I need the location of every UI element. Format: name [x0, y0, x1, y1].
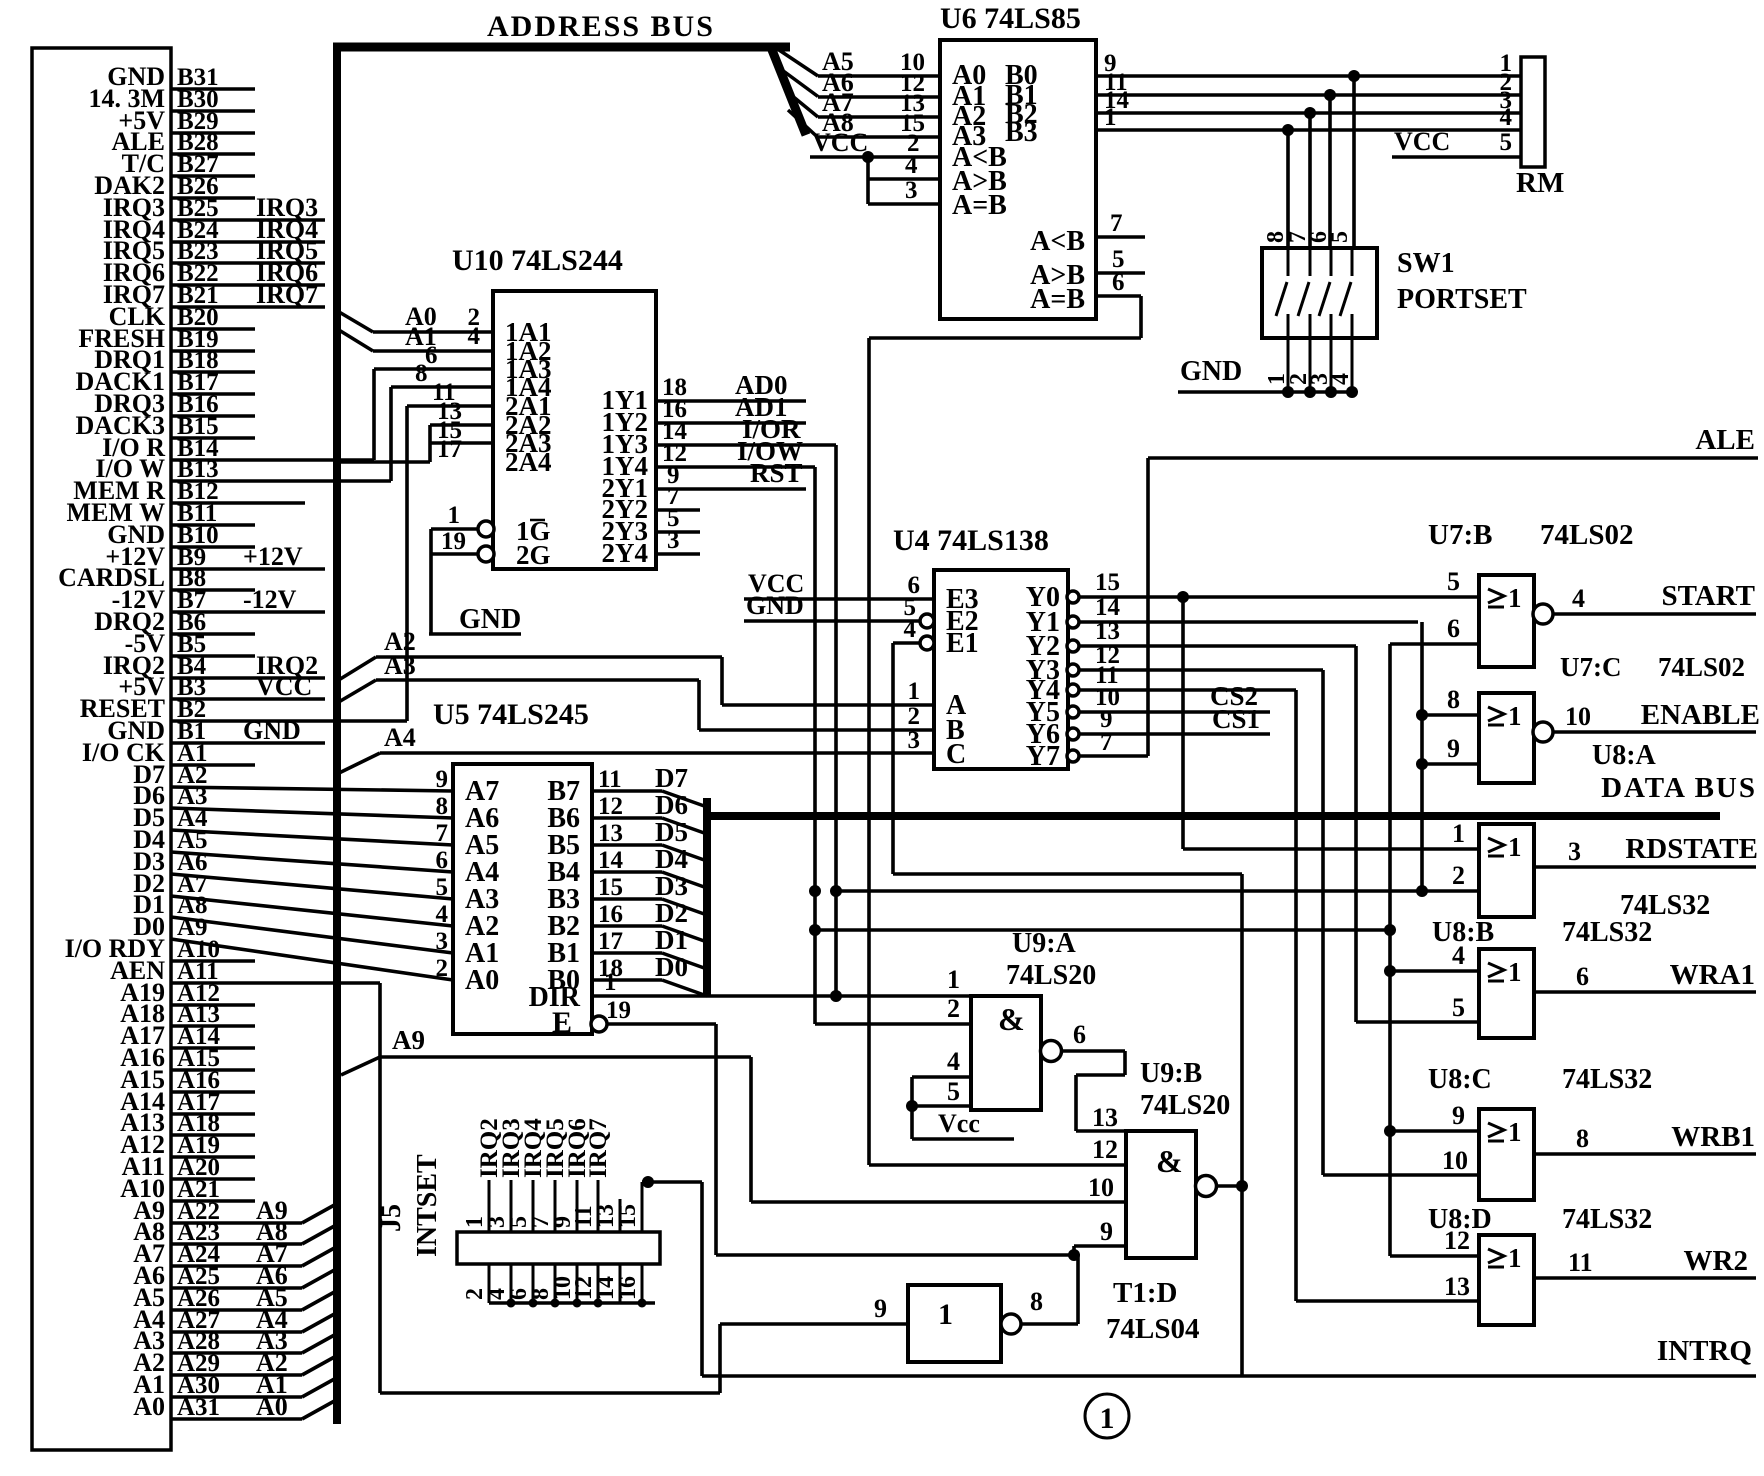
svg-text:A=B: A=B: [1030, 284, 1085, 315]
pin A18 A13: [120, 1108, 255, 1137]
svg-text:ENABLE: ENABLE: [1641, 699, 1760, 731]
svg-text:RST: RST: [750, 458, 803, 488]
svg-text:2Y4: 2Y4: [602, 538, 649, 568]
junction riser / U8:C pin 9: [1384, 1125, 1396, 1137]
junction SW1/GND: [1304, 386, 1316, 398]
svg-text:1: 1: [1508, 957, 1522, 987]
pin B9 +12V: [105, 542, 325, 571]
wire Y7 to ALE: [1079, 458, 1148, 756]
pin B28 ALE: [112, 127, 255, 156]
svg-text:6: 6: [1112, 269, 1125, 296]
svg-text:7: 7: [1110, 210, 1123, 237]
wire A0 from address bus to U10 pin 2: [334, 302, 493, 332]
svg-text:DATA BUS: DATA BUS: [1601, 772, 1757, 804]
wire B1 down to SW1: [1328, 95, 1332, 248]
U4 Y6 bubble pin 9: [1067, 728, 1079, 740]
wire U10 enables 1G 2G to GND: [431, 502, 479, 634]
wire Y4 to U8:D pin 13: [1079, 662, 1479, 1301]
svg-text:17: 17: [598, 928, 623, 955]
junction J5 pin15: [642, 1176, 654, 1188]
wire RESET (B2) to U10 pin 11: [407, 379, 493, 721]
svg-text:PORTSET: PORTSET: [1397, 284, 1527, 315]
inverter T1:D 74LS04: [908, 1277, 1199, 1362]
svg-text:WR2: WR2: [1684, 1245, 1748, 1277]
pin A17 A14: [120, 1087, 255, 1116]
pin B20 CLK: [109, 302, 255, 331]
pin A25 A6: [133, 1261, 338, 1290]
svg-text:9: 9: [1100, 1217, 1113, 1246]
wire U8:B pin 4: [1390, 941, 1479, 971]
wire VCC to U4 E3 pin 6: [744, 569, 934, 599]
svg-text:11: 11: [598, 766, 622, 793]
pin A23 A8: [133, 1217, 338, 1246]
svg-text:2: 2: [436, 955, 449, 982]
wire U7:C pin 9 from Y1 net: [1422, 734, 1479, 764]
J5 top pin 3: [484, 1118, 525, 1232]
svg-text:Vcc: Vcc: [938, 1109, 980, 1138]
pin A4 D5: [133, 803, 453, 845]
svg-text:4: 4: [1572, 584, 1585, 613]
ground GND for SW1: [1178, 356, 1354, 392]
svg-text:INTSET: INTSET: [412, 1154, 443, 1257]
svg-text:8: 8: [415, 360, 428, 387]
pin B13 I/O W: [95, 454, 391, 483]
pin B3 +5V: [118, 672, 325, 701]
connector P1 (ISA bus edge connector) body: [32, 48, 171, 1450]
junction J5 rail: [529, 1299, 538, 1308]
decoder U4 74LS138: [893, 524, 1068, 772]
wire U7:C pin 8 from Y1 net: [1422, 685, 1479, 715]
svg-text:13: 13: [1444, 1272, 1470, 1301]
svg-text:D7: D7: [655, 763, 688, 793]
svg-text:13: 13: [1092, 1103, 1118, 1132]
pin A19 A12: [120, 1130, 255, 1159]
pin A20 A11: [122, 1152, 255, 1181]
wire I/OW tie to U8 gate column: [815, 928, 1390, 932]
resistor network RM: [1516, 57, 1564, 199]
wire to U10 pins 13 15 17: [333, 398, 493, 463]
junction B3 / SW1: [1282, 124, 1294, 136]
svg-text:A<B: A<B: [1030, 226, 1085, 257]
svg-text:1: 1: [1452, 819, 1465, 848]
svg-text:16: 16: [615, 1276, 641, 1300]
wire RST from U10 pin 9: [656, 458, 806, 489]
J5 bottom pin 2: [462, 1264, 489, 1303]
J5 bottom pin 6: [506, 1264, 533, 1303]
pin B1 GND: [107, 716, 325, 745]
svg-text:15: 15: [615, 1204, 641, 1228]
svg-text:U7:C: U7:C: [1560, 652, 1622, 682]
wire B3 down to SW1: [1286, 130, 1290, 248]
OR gate U8:C 74LS32: [1428, 1064, 1652, 1200]
wire A5 to U6 pin 10: [818, 47, 940, 76]
svg-text:1: 1: [1104, 104, 1117, 131]
wire Y3 to U8:C pin 10: [1079, 642, 1479, 1175]
svg-text:74LS32: 74LS32: [1562, 1064, 1652, 1095]
svg-text:1: 1: [1508, 832, 1522, 862]
wire WR2 output pin 11: [1534, 1245, 1756, 1278]
NAND gate U9:A 74LS20: [971, 928, 1096, 1110]
wire U5 B3 pin 15 to data bus (D3): [592, 871, 707, 915]
J5 bottom pin 10: [550, 1264, 577, 1303]
svg-text:3: 3: [436, 928, 449, 955]
svg-text:A31: A31: [177, 1394, 220, 1421]
junction pin4/pin5 tie: [906, 1100, 918, 1112]
pin B10 GND: [107, 520, 255, 549]
svg-text:GND: GND: [1180, 356, 1242, 387]
svg-text:17: 17: [437, 436, 462, 463]
svg-text:1: 1: [604, 969, 617, 996]
junction J5 rail: [507, 1299, 516, 1308]
J5 top pin 9: [550, 1118, 591, 1232]
J5 bottom pin 14: [593, 1264, 620, 1303]
svg-text:4: 4: [904, 616, 917, 643]
pin B25 IRQ3: [103, 193, 325, 222]
pin B23 IRQ5: [103, 236, 325, 265]
wire A6 to U6 pin 12: [818, 68, 940, 97]
svg-text:4: 4: [1500, 104, 1513, 131]
U10 enable bubbles: [478, 521, 494, 537]
junction T1 out / E net: [1068, 1249, 1080, 1261]
pin B2 RESET: [80, 694, 407, 723]
pin B22 IRQ6: [103, 258, 325, 287]
U7:B output bubble: [1533, 604, 1553, 624]
SW1 bottom pins to GND: [1264, 338, 1354, 392]
svg-text:6: 6: [1447, 614, 1460, 643]
sheet number 1: [1085, 1394, 1129, 1438]
wire U8:C pin 9: [1390, 1101, 1479, 1131]
wire U6 B3 pin 1 to RM pin 4: [1096, 104, 1521, 131]
svg-text:1: 1: [908, 678, 921, 705]
U9:A output bubble pin 6: [1041, 1041, 1062, 1062]
wire AEN down and right to T1 pin 9: [380, 983, 720, 1393]
junction B2 / SW1: [1304, 107, 1316, 119]
svg-text:B3: B3: [1005, 117, 1038, 148]
wire U8:D pin 12: [1390, 1226, 1479, 1256]
svg-text:5: 5: [947, 1077, 960, 1106]
svg-text:13: 13: [598, 820, 623, 847]
J5 bottom common rail: [489, 1301, 655, 1305]
pin B21 IRQ7: [103, 280, 325, 309]
stub U10 pin 7: [656, 483, 700, 510]
svg-text:U7:B: U7:B: [1428, 519, 1492, 551]
J5 bottom pin 12: [571, 1264, 598, 1303]
wire T1 input pin 9 from AEN: [720, 1294, 908, 1324]
wire WRA1 output pin 6: [1534, 959, 1756, 992]
wire U8:A pin 2 from I/OR: [836, 889, 1479, 893]
wire U6 B0 pin 9 to RM pin 1: [1096, 50, 1521, 77]
stub U10 pin 3: [656, 527, 700, 554]
power Vcc for U9:A: [912, 1109, 1014, 1139]
svg-text:74LS32: 74LS32: [1562, 917, 1652, 948]
wire U5 B0 pin 18 to data bus (D0): [592, 952, 707, 996]
wire U6 B1 pin 11 to RM pin 2: [1096, 69, 1521, 96]
junction J5 rail: [594, 1299, 603, 1308]
svg-text:74LS02: 74LS02: [1540, 519, 1633, 551]
junction B1 / SW1: [1324, 89, 1336, 101]
U6 output stub A<B pin 7: [1096, 210, 1145, 237]
pin A31 A0: [133, 1392, 338, 1421]
J5 top pin 5: [506, 1118, 547, 1232]
comparator U6 74LS85: [940, 2, 1096, 319]
pin A7 D2: [133, 869, 453, 926]
J5 top pin 7: [528, 1118, 569, 1232]
pin A27 A4: [133, 1305, 338, 1334]
pin A9 D0: [133, 912, 453, 980]
T1 output bubble pin 8: [1001, 1314, 1021, 1334]
svg-text:GND: GND: [459, 604, 521, 635]
svg-text:1: 1: [1508, 583, 1522, 613]
wire U5 B2 pin 16 to data bus (D2): [592, 898, 707, 942]
pin B27 T/C: [122, 149, 255, 178]
svg-text:T1:D: T1:D: [1113, 1277, 1177, 1309]
pin B14 I/O R: [102, 433, 374, 462]
svg-text:U4 74LS138: U4 74LS138: [893, 524, 1049, 557]
pin B19 FRESH: [78, 324, 255, 353]
wire U9:A pin 6 to U9:B pin 13: [1061, 1020, 1126, 1131]
wire B0 down to SW1: [1352, 76, 1356, 248]
svg-text:6: 6: [1073, 1020, 1086, 1049]
wire U5 DIR pin 1 from I/OR to U9:A pin 1: [592, 969, 971, 996]
svg-text:14: 14: [1095, 594, 1121, 621]
pin B31 GND: [107, 62, 255, 91]
svg-text:10: 10: [1442, 1146, 1468, 1175]
junction B0 / SW1: [1348, 70, 1360, 82]
pin A2 D7: [133, 760, 453, 791]
svg-text:IRQ7: IRQ7: [256, 280, 318, 309]
svg-text:E: E: [552, 1006, 572, 1039]
J5 bottom pin 8: [528, 1264, 555, 1303]
svg-text:U8:C: U8:C: [1428, 1064, 1492, 1095]
junction Y0 / U8:A pin 1 riser: [1177, 591, 1189, 603]
svg-text:A3: A3: [384, 651, 416, 680]
svg-text:SW1: SW1: [1397, 248, 1455, 279]
pin A11 AEN: [110, 956, 380, 985]
U4 Y2 bubble pin 13: [1067, 640, 1079, 652]
svg-text:A9: A9: [392, 1025, 425, 1055]
svg-text:D4: D4: [655, 844, 688, 874]
address bus horizontal (thick): [333, 43, 790, 52]
U5 E bubble pin 19: [591, 1016, 607, 1032]
svg-text:2G: 2G: [516, 540, 551, 570]
svg-text:12: 12: [598, 793, 623, 820]
NOR gate U7:C 74LS02: [1479, 652, 1745, 783]
wire A1 from address bus to U10 pin 4: [334, 322, 493, 351]
svg-text:IRQ7: IRQ7: [585, 1118, 612, 1178]
wire A8 to U6 pin 15: [818, 108, 940, 137]
svg-text:16: 16: [598, 901, 623, 928]
junction J5 rail: [551, 1299, 560, 1308]
svg-text:3: 3: [908, 727, 921, 754]
data bus horizontal (thick): [707, 812, 1720, 820]
U9:B pin labels: [1088, 1103, 1118, 1246]
wire U9:B output to U4 E1 pin 4: [893, 616, 1242, 874]
svg-text:VCC: VCC: [256, 672, 312, 701]
pin A28 A3: [133, 1326, 338, 1355]
junction riser / U8:B pin 4: [1384, 965, 1396, 977]
wire VCC tie to U6 pins 4 and 3: [868, 152, 940, 204]
pin B4 IRQ2: [103, 651, 325, 680]
svg-text:ALE: ALE: [1695, 424, 1755, 456]
pin A5 D4: [133, 825, 453, 872]
wire U5 B5 pin 13 to data bus (D5): [592, 817, 707, 861]
svg-text:5: 5: [1452, 993, 1465, 1022]
address bus vertical (thick): [333, 43, 341, 1424]
stub U10 pin 5: [656, 505, 700, 532]
J5 top pin 1: [462, 1118, 503, 1232]
pin B26 DAK2: [94, 171, 255, 200]
address bus fan-out diagonals to U6 A5-A8: [770, 45, 818, 138]
wire A=B pin 6 from U6 to U4 E1 and U9:B pin 12: [869, 269, 1141, 1165]
svg-text:GND: GND: [243, 716, 301, 745]
wire A4 to U4 C pin 3: [337, 723, 934, 774]
wire GND to U4 E2 pin 5: [744, 591, 920, 621]
svg-text:Y7: Y7: [1026, 741, 1060, 772]
svg-text:74LS20: 74LS20: [1140, 1090, 1230, 1121]
junction U9:B output: [1236, 1180, 1248, 1192]
J5 top pin 13: [593, 1199, 620, 1232]
svg-text:2: 2: [947, 994, 960, 1023]
U4 Y0 bubble pin 15: [1067, 591, 1079, 603]
svg-text:4: 4: [905, 152, 918, 179]
junction J5 rail: [638, 1299, 647, 1308]
wire Y6 CS1: [1079, 704, 1270, 734]
DIP switch SW1 PORTSET: [1262, 231, 1527, 338]
svg-text:2: 2: [908, 703, 921, 730]
svg-text:A0: A0: [133, 1392, 165, 1421]
pin A16 A15: [120, 1065, 255, 1094]
junction SW1/GND: [1282, 386, 1294, 398]
U4 Y3 bubble pin 12: [1067, 664, 1079, 676]
junction SW1/GND: [1325, 386, 1337, 398]
svg-text:2: 2: [1452, 861, 1465, 890]
U7:B pin labels: [1447, 567, 1460, 643]
svg-text:1: 1: [938, 1298, 953, 1331]
junction Y1 / U8:A pin 2: [1416, 885, 1428, 897]
wire Y5 CS2: [1079, 681, 1270, 712]
svg-text:&: &: [998, 1001, 1025, 1037]
junction I/OW / WR tie line: [809, 924, 821, 936]
wire B2 down to SW1: [1308, 113, 1312, 248]
wire U5 B7 pin 11 to data bus (D7): [592, 763, 707, 807]
svg-text:9: 9: [1447, 734, 1460, 763]
pin B16 DRQ3: [94, 389, 255, 418]
svg-text:D2: D2: [655, 898, 688, 928]
junction Y1 / U7:C pin 8: [1416, 709, 1428, 721]
svg-text:1: 1: [1508, 701, 1522, 731]
svg-text:4: 4: [1452, 941, 1465, 970]
junction tie / U7:B pin 6 riser: [1384, 924, 1396, 936]
pin A3 D6: [133, 781, 453, 818]
wire A7 to U6 pin 13: [818, 88, 940, 117]
svg-text:74LS02: 74LS02: [1658, 652, 1745, 682]
svg-text:RDSTATE: RDSTATE: [1625, 833, 1758, 865]
svg-text:12: 12: [1092, 1135, 1118, 1164]
wire U5 E pin 19 to U9:B pin 9 / T1 output: [606, 997, 1078, 1255]
junction I/OR / U8:A pin 2 wire: [830, 885, 842, 897]
pin B17 DACK1: [75, 367, 255, 396]
svg-text:74LS04: 74LS04: [1106, 1313, 1199, 1345]
wire AD1 from U10 pin 16: [656, 392, 806, 423]
pin A13 A18: [120, 999, 255, 1028]
svg-text:U9:A: U9:A: [1012, 928, 1077, 959]
wire T1 output pin 8 to U9:B pin 9: [1021, 1246, 1126, 1324]
svg-text:U10 74LS244: U10 74LS244: [452, 244, 623, 277]
pin A1 I/O CK: [82, 738, 255, 767]
U4 Y7 bubble pin 7: [1067, 750, 1079, 762]
svg-text:4: 4: [1328, 373, 1354, 385]
svg-text:A4: A4: [384, 723, 416, 752]
NAND gate U9:B 74LS20: [1126, 1058, 1230, 1258]
wire I/O R (B14) to U10 pin 6: [374, 342, 493, 460]
wire I/OW from U10 pin 12 down to U9:A pin 2: [656, 436, 971, 1024]
svg-text:3: 3: [667, 527, 680, 554]
U7:C output bubble: [1533, 722, 1553, 742]
wire WRB1 output pin 8: [1534, 1121, 1756, 1154]
wire U6 B2 pin 14 to RM pin 3: [1096, 87, 1521, 114]
pin B12 MEM R: [73, 476, 305, 505]
wire U7:B pin 6 net riser to U8 gates: [1390, 644, 1479, 1256]
svg-text:8: 8: [436, 793, 449, 820]
svg-text:4: 4: [436, 901, 449, 928]
svg-text:VCC: VCC: [1394, 127, 1450, 156]
wire U5 B4 pin 14 to data bus (D4): [592, 844, 707, 888]
svg-text:5: 5: [1327, 231, 1353, 243]
svg-text:7: 7: [436, 820, 449, 847]
svg-text:3: 3: [905, 177, 918, 204]
pin B24 IRQ4: [103, 215, 325, 244]
svg-text:8: 8: [1030, 1287, 1043, 1316]
wire U9:B output to INTRQ and U4 E1: [1216, 874, 1242, 1376]
buffer U10 74LS244: [452, 244, 656, 570]
svg-text:4: 4: [468, 323, 481, 350]
net label ALE: [1148, 424, 1758, 458]
junction I/OW / U8:A pin 2 wire: [809, 885, 821, 897]
wire Y1 to U7:C pins and U8:A pin 2: [1079, 594, 1422, 891]
svg-text:RM: RM: [1516, 167, 1564, 199]
J5 bottom pin 16: [615, 1264, 642, 1303]
data bus vertical (thick) at U5: [703, 798, 711, 996]
wire U9:A pin 4 tie to pin 5 and Vcc: [912, 1047, 971, 1139]
svg-text:C: C: [946, 739, 966, 770]
wire RDSTATE output pin 3: [1534, 833, 1758, 867]
U4 Y1 bubble pin 14: [1067, 616, 1079, 628]
transceiver U5 74LS245: [433, 698, 592, 1039]
svg-text:10: 10: [1088, 1173, 1114, 1202]
svg-text:3: 3: [1568, 837, 1581, 866]
pin B18 DRQ1: [94, 345, 255, 374]
svg-text:1: 1: [947, 965, 960, 994]
U4 Y5 bubble pin 10: [1067, 706, 1079, 718]
svg-text:5: 5: [436, 874, 449, 901]
svg-text:6: 6: [1576, 962, 1589, 991]
svg-text:12: 12: [1444, 1226, 1470, 1255]
pin A8 D1: [133, 890, 453, 953]
svg-text:A0: A0: [465, 965, 499, 996]
wire AD0 from U10 pin 18: [656, 370, 806, 401]
svg-text:15: 15: [1095, 569, 1120, 596]
svg-text:1: 1: [1508, 1117, 1522, 1147]
pin B7 -12V: [112, 585, 325, 614]
OR gate U8:B 74LS32: [1432, 917, 1652, 1038]
svg-text:A=B: A=B: [952, 190, 1007, 221]
pin B6 DRQ2: [94, 607, 255, 636]
svg-text:19: 19: [441, 528, 466, 555]
svg-text:74LS20: 74LS20: [1006, 960, 1096, 991]
svg-text:1: 1: [1508, 1243, 1522, 1273]
svg-text:-12V: -12V: [243, 585, 297, 614]
svg-text:14: 14: [598, 847, 624, 874]
